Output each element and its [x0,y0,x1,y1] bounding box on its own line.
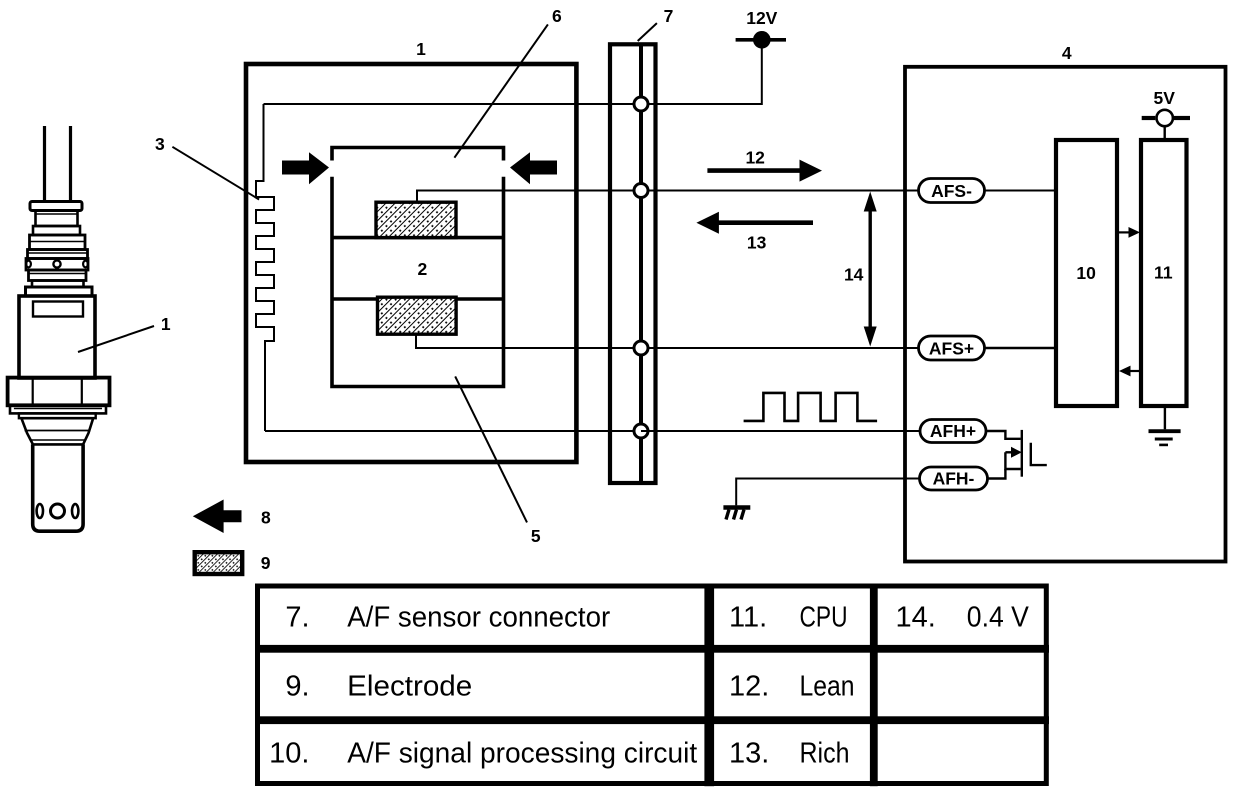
svg-text:12: 12 [745,148,765,168]
sensor tube hole center [51,504,65,518]
svg-text:10.: 10. [269,738,309,770]
connector pin circle 4 [634,424,648,438]
svg-text:8: 8 [261,508,271,528]
svg-text:1: 1 [416,39,426,59]
connector pin circle 3 [634,341,648,355]
svg-text:11: 11 [1154,263,1173,283]
sensor lower crimp ring [29,270,87,281]
connector pin circle 1 [634,97,648,111]
sensor neck ring [33,226,80,235]
svg-text:4: 4 [1062,43,1072,63]
sensor taper collar [32,281,84,288]
CONNECTOR 7 [610,44,656,483]
oval AFH- [920,467,988,490]
legend arrow 8 (exhaust gas) [193,500,242,534]
heater wire top (12V loop top) [641,49,762,105]
table column separator 1 [704,584,714,787]
svg-text:13: 13 [747,233,767,253]
SENSOR [8,126,110,531]
table column separator 2 [870,584,878,787]
svg-text:AFS-: AFS- [931,181,972,201]
oval AFS- [919,179,985,203]
table row separator 1 [255,645,1049,653]
svg-text:3: 3 [155,134,165,154]
arrow 12 (Lean direction) [707,148,822,182]
connector pin circle 2 [634,184,648,198]
heater zigzag element 3 [256,104,274,431]
svg-text:12.: 12. [729,671,769,703]
svg-text:9.: 9. [285,671,309,703]
sensor lead wire right [69,126,72,202]
sensor label window [33,302,83,317]
svg-text:7: 7 [664,6,674,26]
sensor lead wire left [43,126,46,202]
12V supply terminal [736,38,786,42]
svg-text:AFS+: AFS+ [929,338,974,358]
svg-text:0.4 V: 0.4 V [967,602,1030,634]
label 3 leader [172,147,259,200]
legend swatch 9 (electrode) [195,552,243,574]
arrow 10 to 11 [1118,231,1131,233]
BOX1 outer case [246,64,576,462]
sensor tube hole right [72,504,78,518]
sensor body lip [26,287,93,296]
label 7 leader [638,23,657,41]
sensor taper cone [21,418,93,444]
svg-text:Electrode: Electrode [347,671,472,703]
arrow 11 to 10 [1129,370,1140,372]
sensor neck section 1 [36,211,78,227]
electrode upper (hatched) [376,202,456,237]
svg-text:10: 10 [1076,263,1096,283]
AFH+ wire connector to oval [641,430,921,432]
diffusion layer band 2 top line [332,236,504,240]
sensor shoulder [19,413,96,418]
sensor tube hole left [37,504,43,518]
arrow 13 (Rich direction) [696,212,813,253]
svg-text:2: 2 [418,259,428,279]
sensor grommet flange [30,202,82,211]
AFS+ wire to box 10 [985,347,1057,349]
heater wire bottom [265,430,641,432]
oval AFH+ [920,420,986,443]
exhaust arrow right [510,152,557,184]
ground chassis left [723,479,920,520]
exhaust arrow left [282,152,329,184]
5V supply terminal [1142,88,1190,140]
TABLE [255,584,1049,787]
svg-text:A/F sensor connector: A/F sensor connector [347,602,610,634]
svg-text:14.: 14. [896,602,936,634]
sensor ridge ring [28,250,88,259]
svg-text:9: 9 [261,553,271,573]
oval AFS+ [919,336,985,360]
sensor neck section 2 [30,235,86,250]
svg-text:AFH-: AFH- [933,469,975,489]
AFS- wire to box 10 [985,190,1057,192]
sensor main body [19,296,95,378]
svg-text:Lean: Lean [800,671,855,703]
svg-text:1: 1 [161,314,171,334]
AFS+ wire riser from lower electrode [416,334,918,348]
ground under CPU [1149,406,1181,445]
BOX6 zirconia element [332,148,504,387]
svg-text:6: 6 [552,6,562,26]
label 5 leader [455,376,527,522]
svg-text:5: 5 [531,526,541,546]
sensor shield tube [33,444,83,531]
svg-text:CPU: CPU [800,602,848,634]
sensor hex nut [8,378,110,406]
box 11 CPU [1141,140,1187,406]
heater PWM square wave [744,393,878,421]
svg-text:12V: 12V [746,8,777,28]
table frame [258,586,1047,784]
svg-text:7.: 7. [285,602,309,634]
sensor crimp band with dots [26,259,88,271]
svg-text:AFH+: AFH+ [930,421,976,441]
svg-text:5V: 5V [1153,88,1175,108]
svg-text:A/F signal processing circuit: A/F signal processing circuit [347,738,697,770]
svg-text:14: 14 [844,265,864,285]
table row separator 2 [255,716,1049,724]
BOX4 ECU [905,67,1226,562]
svg-text:13.: 13. [729,738,769,770]
double arrow 14 (0.4V span) [844,192,877,347]
label 6 leader [454,24,548,157]
box 10 A/F signal processing circuit [1056,140,1117,406]
sensor washer [10,405,106,413]
diffusion layer band 2 bottom line [332,297,504,301]
transistor Q1 heater driver [986,430,1047,479]
svg-text:Rich: Rich [800,738,850,770]
svg-text:11.: 11. [729,602,767,634]
label 1 sensor leader [78,326,154,352]
AFS- wire riser from upper electrode [417,191,918,203]
electrode lower (hatched) [378,297,457,334]
